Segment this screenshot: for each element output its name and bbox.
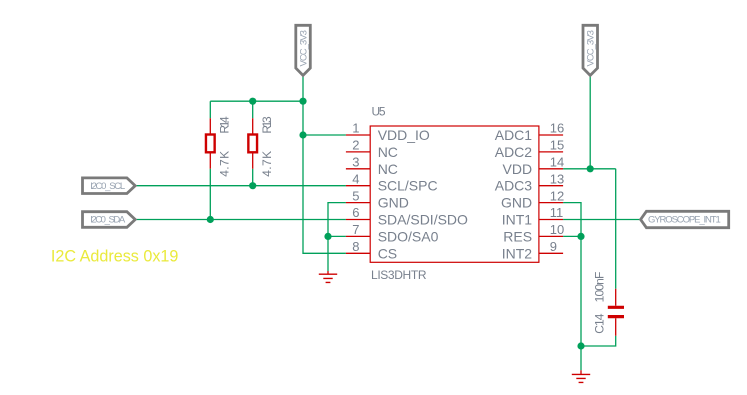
svg-text:ADC3: ADC3	[495, 178, 533, 194]
svg-text:CS: CS	[378, 245, 397, 261]
svg-text:INT2: INT2	[502, 245, 533, 261]
svg-text:11: 11	[550, 205, 564, 220]
svg-text:6: 6	[352, 205, 359, 220]
svg-text:14: 14	[550, 155, 564, 170]
svg-text:4: 4	[352, 171, 359, 186]
svg-text:1: 1	[352, 121, 359, 136]
svg-text:RES: RES	[503, 228, 532, 244]
svg-text:7: 7	[352, 222, 359, 237]
svg-text:15: 15	[550, 138, 564, 153]
svg-text:3: 3	[352, 155, 359, 170]
svg-text:16: 16	[550, 121, 564, 136]
svg-text:12: 12	[550, 188, 564, 203]
svg-text:INT1: INT1	[502, 212, 533, 228]
svg-text:100nF: 100nF	[592, 272, 606, 303]
svg-text:4.7K: 4.7K	[260, 151, 274, 177]
svg-text:10: 10	[550, 222, 564, 237]
svg-text:R13: R13	[260, 116, 274, 134]
svg-text:GND: GND	[501, 195, 532, 211]
svg-text:I2C Address 0x19: I2C Address 0x19	[51, 246, 178, 265]
svg-text:VCC_3V3: VCC_3V3	[299, 30, 310, 66]
svg-text:LIS3DHTR: LIS3DHTR	[371, 268, 427, 282]
svg-text:8: 8	[352, 239, 359, 254]
svg-text:9: 9	[550, 239, 557, 254]
svg-text:NC: NC	[378, 161, 398, 177]
svg-text:SCL/SPC: SCL/SPC	[378, 178, 438, 194]
svg-text:5: 5	[352, 188, 359, 203]
svg-text:SDA/SDI/SDO: SDA/SDI/SDO	[378, 212, 468, 228]
svg-text:NC: NC	[378, 144, 398, 160]
svg-text:VDD: VDD	[503, 161, 533, 177]
svg-text:ADC1: ADC1	[495, 127, 533, 143]
svg-text:13: 13	[550, 171, 564, 186]
svg-text:I2C0_SCL: I2C0_SCL	[90, 181, 125, 192]
svg-text:R14: R14	[218, 116, 232, 134]
svg-text:GYROSCOPE_INT1: GYROSCOPE_INT1	[648, 215, 721, 226]
svg-text:C14: C14	[592, 313, 606, 334]
svg-text:SDO/SA0: SDO/SA0	[378, 228, 439, 244]
svg-text:U5: U5	[372, 105, 386, 119]
svg-text:ADC2: ADC2	[495, 144, 533, 160]
svg-text:VDD_IO: VDD_IO	[378, 127, 430, 143]
svg-text:4.7K: 4.7K	[218, 151, 232, 177]
svg-text:GND: GND	[378, 195, 409, 211]
svg-text:VCC_3V3: VCC_3V3	[586, 30, 597, 66]
svg-text:2: 2	[352, 138, 359, 153]
svg-text:I2C0_SDA: I2C0_SDA	[90, 215, 126, 226]
